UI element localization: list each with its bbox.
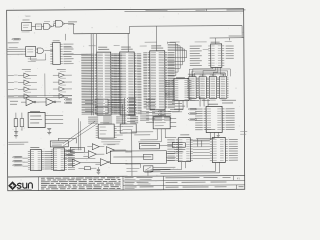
register U110 — [120, 124, 136, 133]
wire rows between UARTs — [193, 141, 210, 159]
net flags bottom-left — [12, 156, 22, 166]
box aux module — [172, 143, 185, 148]
latch U301 F373 — [51, 148, 75, 171]
wire U102 output to RAM — [63, 53, 91, 55]
EEPROM U106 — [28, 111, 63, 128]
wire fan U107 to bus — [108, 100, 124, 111]
capacitor C102 — [47, 128, 51, 132]
net label right edge — [225, 40, 232, 43]
wire Q301 to U206 — [148, 167, 176, 176]
UART U206 Z8530 A — [167, 134, 193, 161]
PAL U109 — [153, 115, 176, 129]
net labels left of U204 — [190, 46, 202, 66]
register U108 F374 — [96, 122, 117, 138]
NAND gate U302A — [44, 21, 52, 30]
net labels right of clock module — [174, 149, 185, 152]
buffer U204 F244 right side — [208, 42, 224, 68]
wire U109 outputs down — [138, 129, 176, 142]
RAM U201 — [112, 47, 142, 116]
wire divider to gate — [42, 25, 44, 27]
capacitor C101 — [14, 132, 18, 136]
resistor R102 — [20, 113, 24, 131]
net labels right of RP row — [190, 100, 236, 104]
ground pin U205 — [217, 132, 220, 137]
wire U102 feed vertical — [65, 34, 67, 40]
oscillator Y300 16MHz — [22, 16, 32, 33]
vertical bus center — [123, 98, 125, 124]
register U102 F175 — [50, 40, 63, 64]
wire center long vertical — [131, 130, 133, 176]
wire left edge rows — [7, 47, 23, 54]
wire vertical bus left of U200 — [91, 34, 93, 116]
net flag column MBAD lines — [127, 98, 136, 122]
latch U101 F373 — [23, 47, 36, 57]
net flags left of U205 — [188, 108, 196, 120]
text note rows below U108 — [101, 139, 123, 144]
wire top bus 1 — [68, 23, 130, 34]
header label row right half — [145, 42, 207, 43]
ground left — [14, 136, 18, 138]
line driver U303B — [106, 144, 126, 153]
label F244 tag — [203, 48, 209, 51]
line receiver U304B — [90, 159, 110, 166]
wire bottom-center row — [63, 157, 95, 159]
wire vertical pair center-left — [79, 118, 81, 150]
buffer U203 F244 — [165, 77, 192, 101]
net label column 2 — [146, 99, 155, 123]
net 16MHZ wire — [64, 23, 67, 25]
wire long horizontals lower left — [8, 96, 72, 98]
wire clock drop to U200 — [97, 26, 157, 52]
inverter U105B — [41, 98, 61, 105]
wire address bus fan — [167, 43, 187, 76]
label U103 header — [22, 68, 31, 71]
capacitor C301 — [97, 167, 100, 172]
wire left edge horizontals — [8, 142, 28, 144]
buffer array U103 — [8, 71, 37, 98]
net flag P2 A — [64, 99, 72, 101]
label box U303 — [70, 147, 84, 152]
note box — [110, 151, 166, 164]
text rows below U101 — [28, 59, 37, 62]
net label 16MHZ — [68, 21, 77, 25]
pin labels header band — [89, 45, 147, 47]
inverter pack U107 — [85, 99, 108, 114]
title block texts — [124, 177, 243, 189]
text sheet note — [126, 168, 160, 172]
wire top feed U301 — [58, 138, 76, 143]
Sun Microsystems logo — [8, 181, 32, 190]
net labels left of inverters — [10, 101, 18, 105]
label box U301 — [50, 141, 68, 147]
revision strip — [124, 9, 245, 12]
wire bottom-center bus — [125, 152, 140, 168]
wire U203 outputs down — [168, 101, 187, 112]
label U104 header — [57, 68, 66, 71]
ground center-left — [47, 132, 51, 134]
wire flags to U300 — [22, 158, 28, 166]
NAND gate U302B — [53, 20, 64, 27]
wire right edge net — [210, 36, 244, 38]
wire oscillator output — [32, 26, 36, 28]
net labels under U200 U201 — [88, 116, 138, 123]
wire U101 feedback loop — [31, 53, 46, 60]
box clock module — [139, 143, 172, 149]
net flag CLK16 left area — [12, 38, 21, 40]
wire feeds to U205 — [200, 96, 208, 106]
wire UART bottom drops — [150, 161, 219, 173]
wire gate to gate — [51, 24, 55, 27]
wire horizontal feed to resistor packs — [188, 73, 226, 75]
buffer U111 — [87, 144, 104, 150]
title block — [8, 176, 245, 191]
transceiver U205 F245 — [195, 104, 235, 133]
UART U206 Z8530 B — [205, 129, 238, 163]
ground bottom-center — [97, 172, 101, 174]
resistor pack RP300-RP303 — [187, 74, 229, 101]
title block cells — [123, 176, 245, 190]
net labels right of U109 — [172, 100, 185, 112]
wire top bus 2 — [130, 26, 243, 39]
divider U301 — [36, 24, 42, 30]
copyright paragraph — [41, 177, 121, 189]
wire center horizontals — [132, 132, 154, 135]
NAND gate U102A — [36, 48, 53, 54]
wire diagonal harness — [63, 121, 97, 146]
net labels right of U102 rows — [63, 44, 73, 64]
wire U108 to bus — [117, 126, 123, 135]
net flags below U203 — [158, 110, 166, 115]
resistor R101 — [14, 113, 18, 133]
net label top left column — [8, 41, 19, 44]
line driver U303A — [83, 151, 104, 158]
net flags bottom-center — [64, 150, 73, 156]
label above box K header — [64, 46, 73, 49]
line receiver U304A — [67, 159, 90, 166]
wire U204 top feed — [216, 38, 230, 44]
net labels under U202 — [140, 111, 171, 120]
transistor Q301 — [143, 166, 153, 173]
buffer array U104 — [53, 71, 72, 98]
wire buffer column vertical — [44, 73, 46, 96]
scan noise — [3, 7, 243, 191]
wire U205 bottom routing — [190, 132, 214, 146]
RAM U202 — [143, 45, 175, 110]
inverter U105A — [21, 99, 41, 106]
net labels right of U204 — [226, 46, 234, 59]
wire note box outputs — [166, 153, 176, 160]
net labels between U300 U301 — [44, 151, 52, 169]
wire bus fan top feed — [167, 42, 169, 44]
resistor R302 — [78, 167, 96, 170]
RAM U200 — [81, 47, 122, 116]
wire U204 outputs to RP packs — [189, 67, 230, 76]
buffer U300 F244 — [28, 147, 44, 170]
net flag P2 B — [64, 102, 72, 104]
net labels right edge UART — [240, 131, 247, 135]
